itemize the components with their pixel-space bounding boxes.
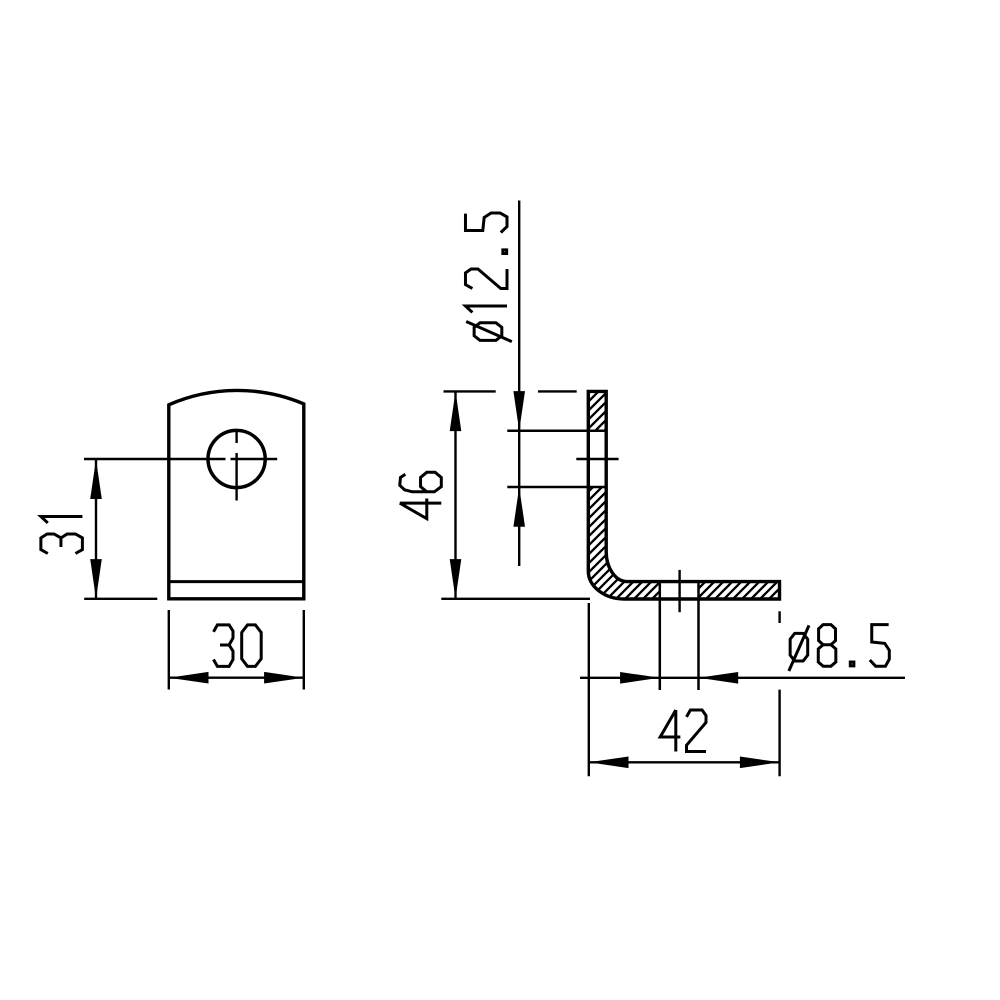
dimension 46: dimension line [454, 391, 456, 598]
dimension 30: value label "30" [214, 625, 262, 667]
dimension dia 12.5: value label "ø12.5" (rotated) [465, 213, 511, 342]
dimension 46: top extension line segment b [538, 390, 577, 392]
front view: hole horizontal centerline [84, 458, 277, 460]
front view: bracket outline with arched top [169, 390, 304, 598]
dimension 42: dimension line [589, 761, 780, 763]
dimension dia 8.5: right arrowhead [699, 672, 739, 684]
section view: L-profile outline [588, 391, 779, 599]
section view: base hole centerline dash [678, 570, 680, 612]
dimension 30: left extension line [168, 610, 170, 690]
section view: base hole right edge line [697, 582, 700, 690]
dimension 46: bottom extension line [441, 598, 590, 600]
dimension 31: bottom extension line [84, 598, 157, 600]
dimension dia 8.5: value label "ø8.5" [789, 625, 889, 671]
front view: bend line of foot [169, 580, 304, 583]
section view: hatching of base beyond hole [699, 582, 780, 599]
dimension 42: left arrowhead [589, 757, 629, 769]
dimension 46: value label "46" (rotated) [400, 472, 442, 518]
dimension 42: right arrowhead [740, 757, 780, 769]
section view: base hole left edge line [659, 582, 662, 690]
section view: upper hole bottom edge line [507, 486, 606, 489]
front view: hole vertical centerline [235, 431, 237, 500]
dimension dia 8.5: dimension line [580, 677, 905, 679]
dimension dia 8.5: left arrowhead [620, 672, 660, 684]
dimension 30: right arrowhead [264, 672, 304, 684]
dimension 30: left arrowhead [169, 672, 209, 684]
dimension 31: value label "31" (rotated) [41, 516, 83, 553]
section view: upper hole top edge line [507, 430, 606, 433]
dimension 42: right extension line upper dash [778, 611, 780, 623]
section view: upper hole centerline dash [576, 458, 618, 460]
dimension dia 12.5: upper arrowhead [513, 391, 525, 431]
dimension 42: left extension line [588, 603, 590, 776]
section view: hatching of bend and base up to hole [588, 487, 660, 599]
dimension 31: dimension line [95, 459, 97, 599]
dimension 46: top extension line segment a [444, 390, 496, 392]
front view: hole circle dia 12.5 [208, 430, 265, 487]
dimension dia 12.5: lower arrowhead [513, 487, 525, 527]
dimension 30: right extension line [303, 610, 305, 690]
dimension 42: value label "42" [660, 710, 706, 752]
dimension 31: upper arrowhead [90, 459, 102, 499]
dimension 46: upper arrowhead [450, 391, 462, 431]
section view: hatching of upper leg segment [588, 391, 606, 430]
dimension 30: dimension line [169, 677, 304, 679]
dimension 42: right extension line lower segment [778, 690, 780, 777]
dimension dia 12.5: dimension line [518, 201, 520, 567]
dimension 31: lower arrowhead [90, 559, 102, 599]
dimension 46: lower arrowhead [450, 559, 462, 599]
